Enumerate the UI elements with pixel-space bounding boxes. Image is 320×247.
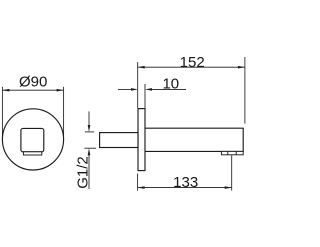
- dimension 10: label text: [162, 76, 179, 93]
- svg-text:G1/2: G1/2: [74, 156, 91, 189]
- svg-text:133: 133: [173, 174, 198, 191]
- dimension 10: extension line right: [144, 84, 146, 108]
- dimension Ø90: dimension line with arrows: [2, 89, 63, 92]
- side view: aerator at spout tip: [221, 151, 243, 154]
- dimension G1/2: extension line bottom: [84, 147, 96, 149]
- dimension 152: dimension line with arrows: [138, 66, 245, 69]
- dimension Ø90: extension line right: [63, 87, 65, 140]
- dimension G1/2: rotated label text: [74, 156, 91, 189]
- dimension Ø90: extension line left: [1, 87, 3, 140]
- front view: aerator lip: [23, 152, 41, 155]
- side view: wall plate: [138, 109, 145, 171]
- dimension 133: dimension line with arrows: [138, 186, 232, 189]
- dimension 152: extension line left: [137, 62, 139, 108]
- dimension 152: label text: [180, 54, 205, 71]
- dimension G1/2: lower leader with up arrow: [88, 148, 91, 189]
- svg-text:152: 152: [180, 54, 205, 71]
- dimension G1/2: upper leader with down arrow: [88, 111, 91, 132]
- dimension Ø90: label text: [19, 74, 47, 91]
- dimension 133: extension line right: [231, 156, 233, 191]
- front view: square spout body: [21, 128, 44, 151]
- dimension 10: right outside arrow with tail: [145, 88, 186, 91]
- dimension 10: left outside arrow: [118, 88, 138, 91]
- side view: G1/2 inlet pipe: [100, 133, 138, 148]
- dimension 133: extension line left: [137, 174, 139, 191]
- svg-text:10: 10: [162, 76, 179, 93]
- dimension 133: label text: [173, 174, 198, 191]
- svg-text:Ø90: Ø90: [19, 74, 47, 91]
- side view: spout tube: [145, 128, 243, 151]
- dimension G1/2: extension line top: [85, 131, 94, 133]
- dimension 152: extension line right: [244, 57, 246, 124]
- front view: escutcheon circle: [2, 109, 63, 170]
